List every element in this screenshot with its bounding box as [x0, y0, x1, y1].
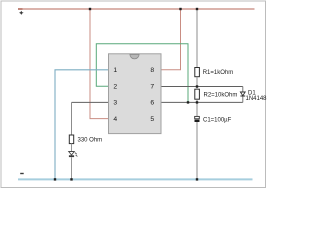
junction ground x LED	[70, 178, 72, 180]
V+ rail (top positive supply wire)	[18, 8, 255, 10]
svg-text:330 Ohm: 330 Ohm	[78, 137, 103, 143]
junction V+ x R1	[196, 8, 198, 10]
junction ground x C1	[196, 178, 198, 180]
svg-text:C1=100µF: C1=100µF	[203, 118, 232, 124]
wire R2 leads	[196, 87, 198, 90]
minus terminal marker	[20, 173, 24, 174]
junction node A (R1/R2/pin7)	[196, 85, 198, 87]
wire V+ to R1 (black)	[196, 9, 198, 68]
junction node B green x pin6	[187, 101, 189, 103]
wire C1 to ground rail	[196, 122, 198, 179]
IC notch	[130, 54, 139, 59]
svg-text:8: 8	[150, 67, 154, 74]
plus terminal marker	[19, 11, 24, 15]
svg-text:1: 1	[113, 67, 117, 74]
wire V+ to pin 8 (red)	[161, 9, 181, 70]
wire LED to ground rail (grey)	[71, 157, 73, 179]
svg-text:1N4148: 1N4148	[246, 96, 268, 102]
diode D1 leads	[242, 87, 244, 93]
op-amp/timer IC U1 body	[109, 54, 162, 134]
ground rail (bottom wire)	[18, 178, 253, 180]
junction V+ x red vertical	[89, 8, 91, 10]
wire pin 7 line (node A horizontal)	[161, 86, 243, 88]
wire pin 3 to 330 ohm resistor (black)	[72, 101, 109, 103]
svg-text:R2=10kOhm: R2=10kOhm	[204, 92, 238, 98]
LED D2 symbol	[69, 152, 75, 156]
wire pin 6 line (node B horizontal)	[161, 101, 243, 103]
resistor R2 body	[195, 89, 200, 99]
wire pin 2 to pin 6 (green)	[96, 44, 188, 103]
junction ground x teal	[54, 178, 56, 180]
resistor 330 Ohm body	[69, 135, 73, 144]
junction V+ x pin8 wire	[179, 8, 181, 10]
wire node B to C1	[196, 102, 198, 116]
svg-text:2: 2	[113, 84, 117, 91]
resistor R1 body	[195, 68, 200, 77]
capacitor C1 symbol	[195, 116, 200, 118]
svg-text:6: 6	[150, 100, 154, 107]
wire pin 1 to ground rail (teal)	[55, 70, 109, 180]
svg-text:R1=1kOhm: R1=1kOhm	[203, 70, 234, 76]
svg-text:4: 4	[113, 116, 117, 123]
V+ rail terminal tip	[18, 8, 23, 10]
svg-text:3: 3	[113, 100, 117, 107]
svg-text:7: 7	[150, 84, 154, 91]
wire R1 to node A	[196, 77, 198, 87]
wire 330 to LED	[71, 144, 73, 152]
diode D1 symbol	[240, 92, 245, 96]
svg-text:5: 5	[150, 116, 154, 123]
wire V+ to pin 4 (red vertical + horizontal)	[90, 9, 109, 119]
junction node B R2/C1	[196, 101, 198, 103]
